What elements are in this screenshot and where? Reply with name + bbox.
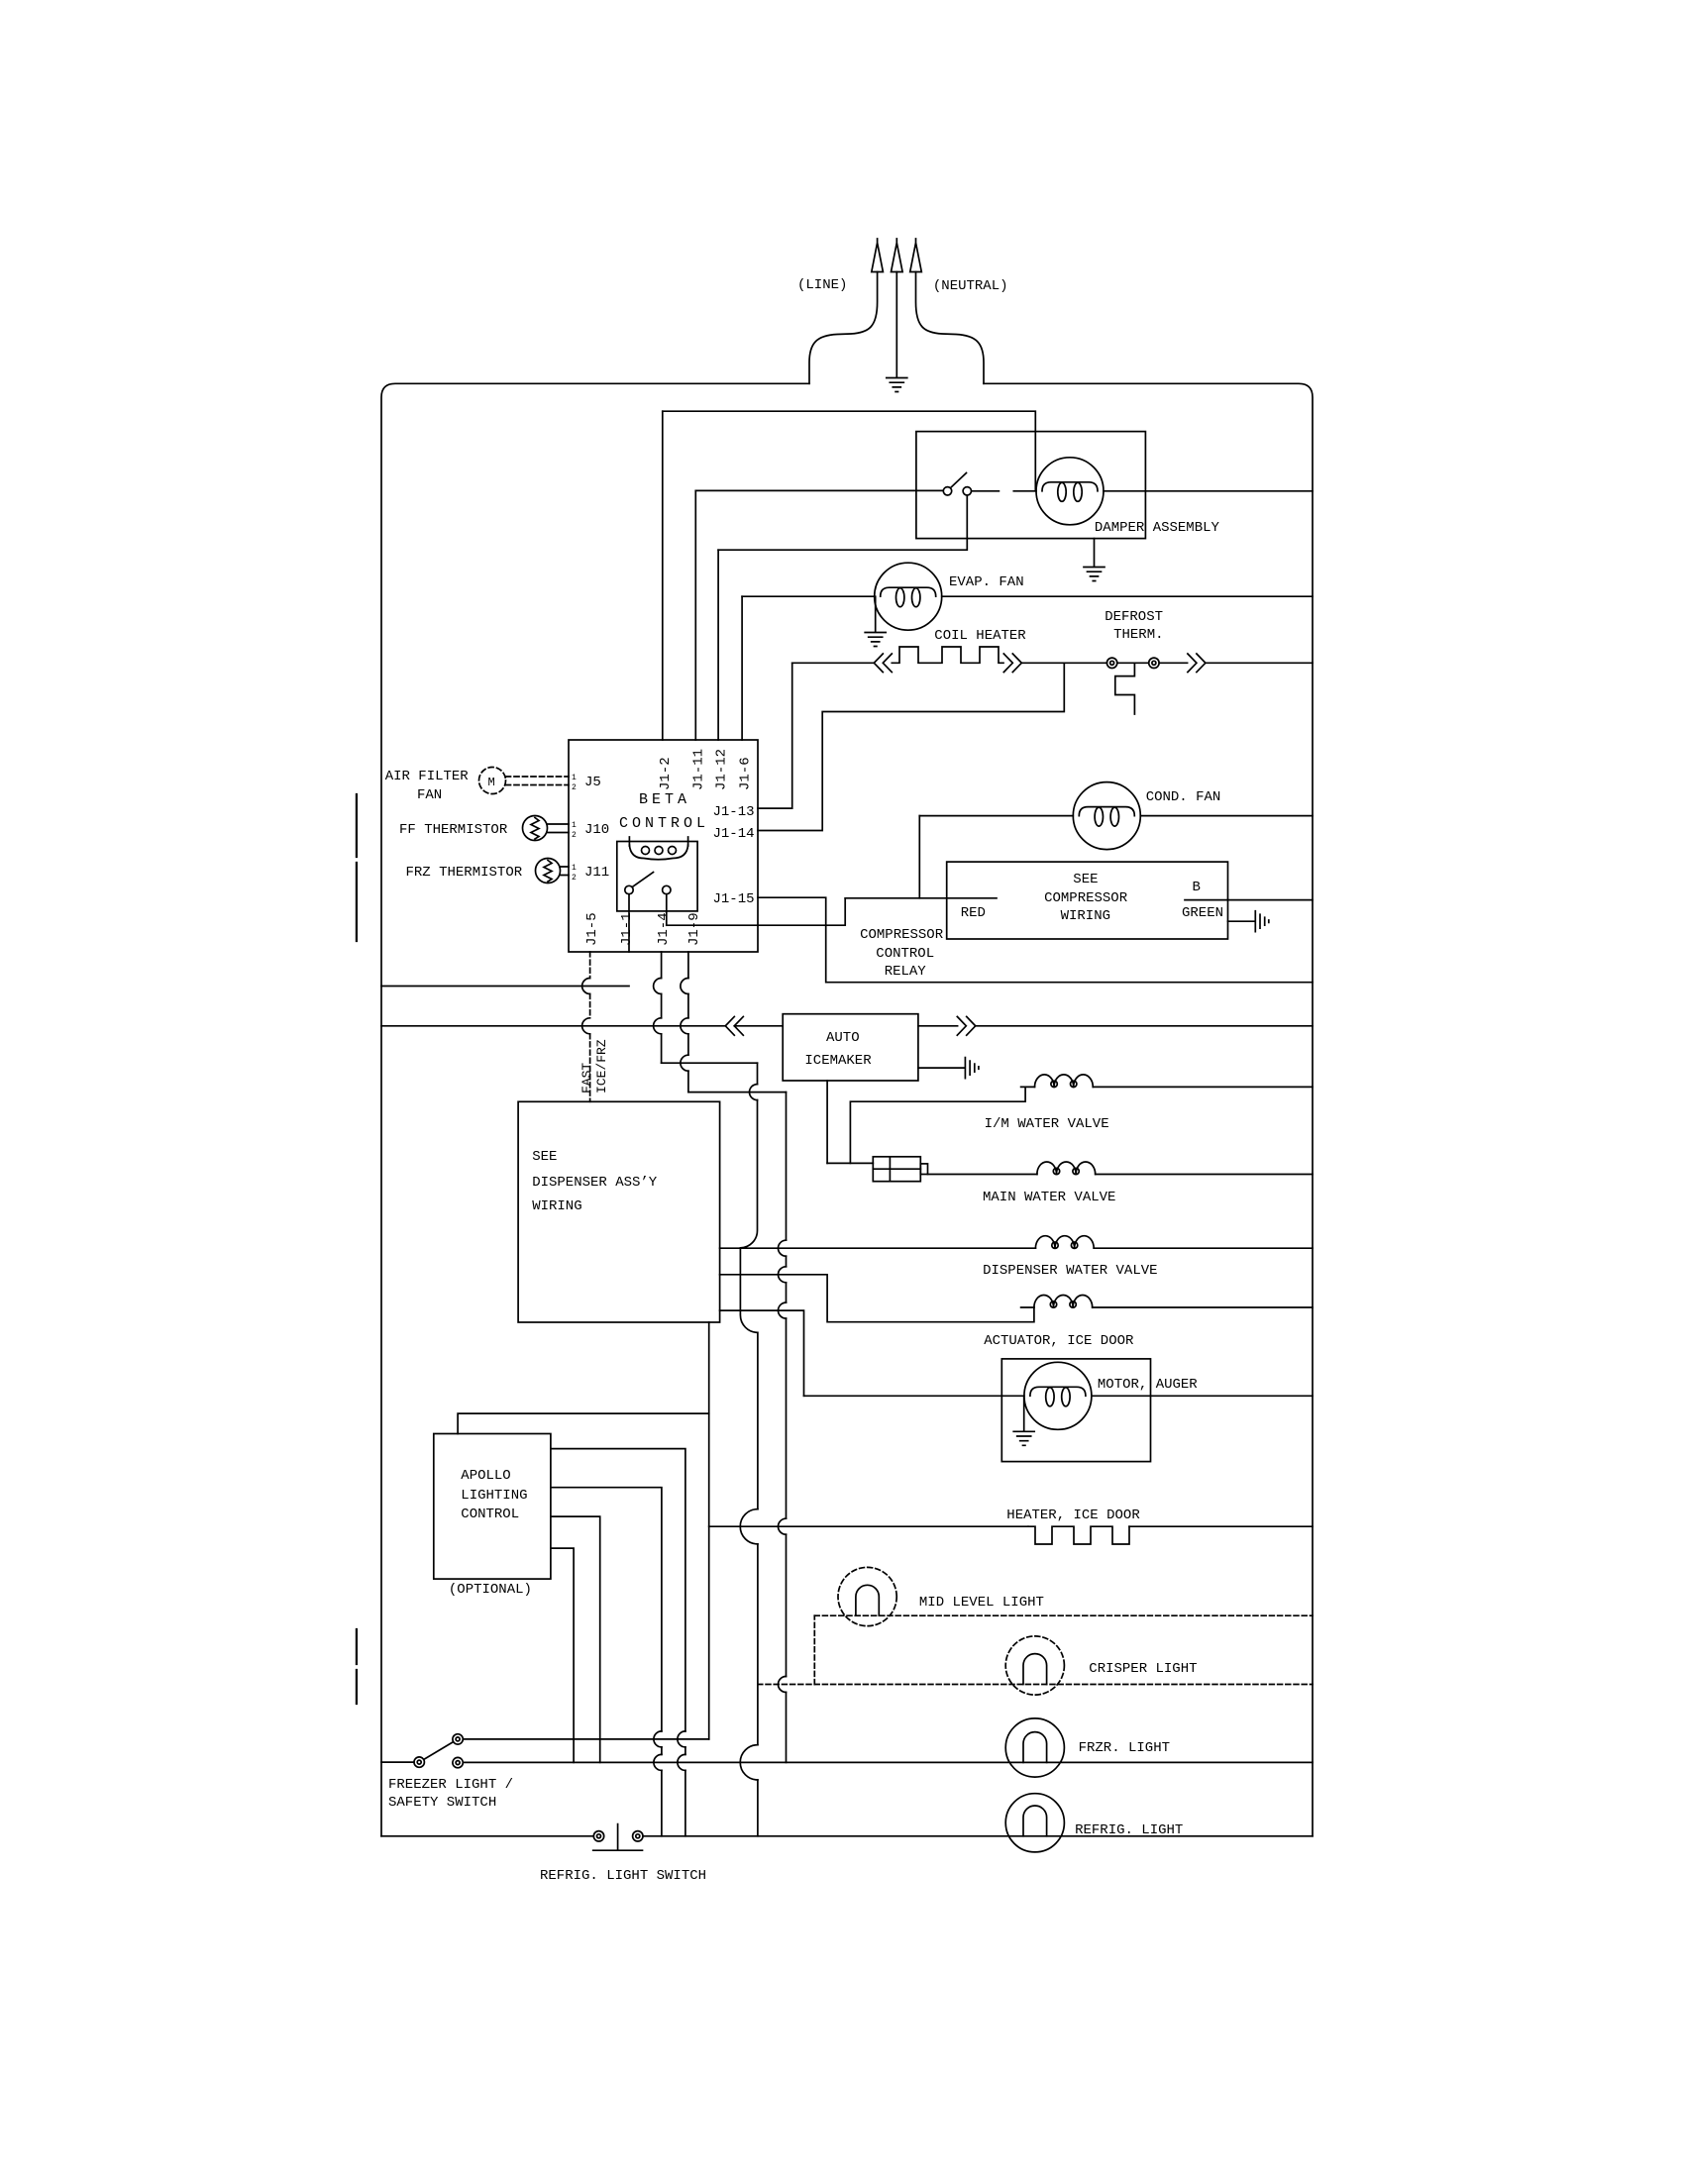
- svg-text:MAIN WATER VALVE: MAIN WATER VALVE: [983, 1190, 1115, 1205]
- wire J1-1 line to left border: [381, 986, 629, 988]
- svg-text:1: 1: [572, 774, 577, 782]
- border top edge with rounded corners: [381, 383, 1313, 1836]
- air filter fan leads dashed: [506, 777, 570, 785]
- fold mark upper: [356, 794, 358, 941]
- svg-text:DISPENSER ASS’Y: DISPENSER ASS’Y: [532, 1175, 658, 1191]
- wire IM valve line: [1021, 1086, 1313, 1088]
- hop apollo pin1 over freezer top line: [678, 1731, 685, 1747]
- svg-text:2: 2: [572, 831, 577, 840]
- wire mid level dashed line: [814, 1614, 1313, 1616]
- FF thermistor element: [531, 818, 539, 840]
- svg-text:J11: J11: [584, 865, 609, 881]
- icemaker connector tab: [920, 1164, 927, 1175]
- svg-text:COMPRESSOR: COMPRESSOR: [860, 927, 944, 943]
- wire J1-6 riser: [741, 596, 743, 740]
- svg-text:ACTUATOR, ICE DOOR: ACTUATOR, ICE DOOR: [984, 1333, 1134, 1349]
- hop J1-9 feeder over dispenser valve line: [779, 1240, 787, 1256]
- hop J1-4 over J1-1 line: [654, 979, 662, 994]
- wire apollo top link: [458, 1413, 709, 1433]
- svg-text:J1-11: J1-11: [691, 749, 707, 790]
- hop J1-9 feeder over actuator link: [779, 1267, 787, 1283]
- switch contact left: [943, 487, 951, 495]
- damper motor: [1036, 458, 1104, 525]
- svg-text:SEE: SEE: [1073, 872, 1098, 887]
- svg-text:SEE: SEE: [532, 1149, 557, 1165]
- wire damper bus left: [695, 489, 942, 491]
- wire main valve line: [928, 1174, 1314, 1176]
- wire icemaker drop: [826, 1081, 828, 1163]
- svg-text:REFRIG. LIGHT: REFRIG. LIGHT: [1075, 1822, 1183, 1838]
- wire evap fan ground drop: [875, 596, 877, 631]
- svg-text:GREEN: GREEN: [1182, 905, 1223, 921]
- svg-text:COND. FAN: COND. FAN: [1146, 789, 1221, 805]
- wire J1-12 riser: [717, 550, 719, 740]
- wire actuator line: [1021, 1306, 1313, 1308]
- svg-text:M: M: [488, 776, 495, 789]
- plug prong NEUTRAL: [910, 239, 922, 272]
- icemaker connector body: [873, 1157, 920, 1182]
- svg-text:REFRIG. LIGHT SWITCH: REFRIG. LIGHT SWITCH: [540, 1868, 706, 1884]
- connector chevrons right of therm: [1188, 654, 1206, 673]
- wire icemaker bus to box: [734, 1025, 783, 1027]
- wire auto icemaker bus left: [381, 1025, 725, 1027]
- crisper light bulb: [1005, 1636, 1064, 1695]
- freezer switch contact top: [453, 1734, 463, 1744]
- chassis ground icemaker: [965, 1058, 979, 1079]
- crisper light filament: [1023, 1654, 1047, 1685]
- svg-text:(NEUTRAL): (NEUTRAL): [933, 278, 1008, 294]
- wire heater bus: [1021, 662, 1313, 664]
- svg-text:BETA: BETA: [639, 791, 690, 808]
- hop apollo pin1 over frzr light line: [678, 1754, 685, 1770]
- svg-text:RED: RED: [961, 905, 986, 921]
- svg-text:FRZR. LIGHT: FRZR. LIGHT: [1079, 1740, 1170, 1756]
- svg-text:2: 2: [572, 783, 577, 792]
- big hop J1-4 feeder over frzr light line: [740, 1745, 758, 1780]
- refrig switch contact left: [593, 1831, 603, 1841]
- wire border bottom to switch: [381, 1835, 593, 1837]
- ground symbol below plug: [887, 378, 907, 392]
- svg-text:WIRING: WIRING: [532, 1198, 581, 1214]
- svg-text:HEATER, ICE DOOR: HEATER, ICE DOOR: [1006, 1508, 1140, 1523]
- actuator coil: [1034, 1296, 1093, 1308]
- wire apollo pin1: [551, 1449, 685, 1836]
- relay blade: [632, 873, 653, 887]
- svg-text:J1-15: J1-15: [713, 891, 755, 907]
- svg-text:J10: J10: [584, 822, 609, 838]
- wire heater ice door line: [709, 1525, 1313, 1527]
- wire evap fan bus: [742, 595, 1313, 597]
- svg-text:J1-14: J1-14: [713, 826, 755, 842]
- wire relay right contact drop: [666, 894, 668, 926]
- svg-text:CRISPER LIGHT: CRISPER LIGHT: [1089, 1661, 1197, 1677]
- wire ground pin drop: [895, 272, 897, 377]
- FRZ thermistor leads: [560, 867, 569, 876]
- hop J1-9 over J1-1 line: [681, 979, 688, 994]
- hop J1-4 over icemaker bus: [654, 1018, 662, 1034]
- auto icemaker box: [783, 1014, 918, 1081]
- svg-text:J1-2: J1-2: [658, 757, 674, 790]
- hop apollo pin2 over freezer top line: [654, 1731, 662, 1747]
- svg-text:COMPRESSOR: COMPRESSOR: [1044, 890, 1128, 906]
- svg-text:DISPENSER WATER VALVE: DISPENSER WATER VALVE: [983, 1263, 1157, 1279]
- refrig light filament: [1023, 1806, 1047, 1836]
- svg-text:1: 1: [572, 821, 577, 830]
- evap fan motor: [875, 563, 942, 630]
- svg-text:THERM.: THERM.: [1113, 627, 1163, 643]
- svg-text:MID LEVEL LIGHT: MID LEVEL LIGHT: [919, 1595, 1044, 1611]
- wire dispenser box drop to freezer switch line: [708, 1322, 710, 1739]
- wire auger bus: [804, 1395, 1314, 1397]
- plug prong LINE: [872, 239, 884, 272]
- wire J1-11 riser: [694, 490, 696, 740]
- svg-text:CONTROL: CONTROL: [876, 946, 934, 962]
- wire J1-4 feeder vertical: [740, 1063, 758, 1836]
- hop J1-9 feeder over auger link: [779, 1302, 787, 1318]
- svg-text:FAN: FAN: [417, 787, 442, 803]
- wire connector feed: [827, 1162, 873, 1164]
- svg-text:CONTROL: CONTROL: [619, 815, 709, 832]
- wire J1-9 horizontal jog: [688, 1092, 787, 1093]
- FRZ thermistor: [536, 859, 561, 884]
- hop J1-5 over J1-1 line: [582, 979, 590, 994]
- wire J1-4 horizontal jog: [662, 1062, 758, 1064]
- connector chevrons icemaker left: [725, 1016, 743, 1035]
- compressor wiring box: [947, 862, 1228, 939]
- wire damper bus right to border: [1104, 490, 1313, 492]
- heater ice door element: [1028, 1526, 1129, 1544]
- svg-text:ICEMAKER: ICEMAKER: [804, 1053, 872, 1069]
- FF thermistor: [523, 816, 548, 841]
- svg-text:AUTO: AUTO: [826, 1030, 860, 1046]
- svg-text:J5: J5: [584, 775, 601, 790]
- svg-text:1: 1: [572, 864, 577, 873]
- FF thermistor leads: [547, 824, 569, 833]
- beta control box: [569, 740, 758, 952]
- wire cond fan drop to red line: [918, 816, 920, 898]
- dispenser water valve coil: [1035, 1236, 1094, 1249]
- wire border to freezer switch: [381, 1761, 414, 1763]
- wire J1-9 drop: [687, 952, 689, 1092]
- heater element coil heater: [792, 647, 1003, 663]
- wire damper ground drop: [1094, 539, 1096, 567]
- ground symbol damper: [1084, 568, 1105, 581]
- connector chevrons icemaker right: [957, 1016, 975, 1035]
- wire J1-9 feeder vertical: [786, 1092, 788, 1763]
- freezer switch contact bottom: [453, 1757, 463, 1767]
- wire apollo pin3: [551, 1516, 600, 1762]
- big hop J1-4 feeder over heater ice door line: [740, 1509, 758, 1544]
- plug prong ground pin: [892, 239, 903, 272]
- svg-text:FRZ THERMISTOR: FRZ THERMISTOR: [406, 865, 523, 881]
- defrost therm terminal right: [1149, 658, 1159, 668]
- wire icemaker bus right: [918, 1025, 1313, 1027]
- svg-text:B: B: [1193, 880, 1201, 895]
- wire top link: [663, 411, 1036, 491]
- svg-text:(OPTIONAL): (OPTIONAL): [449, 1582, 532, 1598]
- refrig switch plunger: [593, 1824, 643, 1851]
- svg-text:DEFROST: DEFROST: [1105, 609, 1163, 625]
- wire relay left contact to J1-1: [628, 894, 630, 952]
- svg-text:J1-1: J1-1: [619, 912, 635, 946]
- ground symbol auger: [1013, 1431, 1034, 1445]
- wire neutral-prong S-curve to border: [916, 272, 985, 384]
- main water valve coil: [1037, 1162, 1096, 1175]
- relay coil: [629, 845, 687, 860]
- svg-text:J1-5: J1-5: [584, 912, 600, 946]
- hop J1-9 feeder over crisper dashed line: [779, 1677, 787, 1693]
- wire frzr light line: [464, 1761, 1314, 1763]
- wire auger link: [720, 1310, 804, 1396]
- ground symbol evap fan: [865, 633, 886, 647]
- svg-text:J1-12: J1-12: [714, 749, 730, 790]
- svg-text:FF THERMISTOR: FF THERMISTOR: [399, 822, 508, 838]
- wire dispenser valve line: [720, 1247, 1313, 1249]
- dispenser assy box: [518, 1101, 720, 1322]
- svg-text:J1-9: J1-9: [686, 912, 702, 946]
- wire link to IM valve: [850, 1087, 1025, 1163]
- wire auger ground drop: [1023, 1396, 1025, 1430]
- wire J1-2 riser: [662, 411, 664, 740]
- svg-text:APOLLO: APOLLO: [461, 1468, 510, 1484]
- svg-text:WIRING: WIRING: [1061, 908, 1110, 924]
- wire J1-4 drop: [661, 952, 663, 1063]
- defrost therm sensing element: [1115, 663, 1135, 714]
- svg-text:2: 2: [572, 874, 577, 883]
- wire B to right border: [1228, 899, 1314, 901]
- wire apollo pin2: [551, 1488, 662, 1836]
- wire icemaker ground lead: [918, 1067, 965, 1069]
- refrig switch contact right: [633, 1831, 643, 1841]
- svg-text:FAST: FAST: [579, 1063, 594, 1093]
- refrig light bulb: [1005, 1794, 1064, 1852]
- svg-text:J1-4: J1-4: [656, 912, 672, 946]
- relay box inside beta control: [617, 842, 697, 911]
- air filter fan motor dashed: [479, 768, 506, 794]
- svg-text:(LINE): (LINE): [797, 277, 847, 293]
- svg-text:DAMPER ASSEMBLY: DAMPER ASSEMBLY: [1095, 520, 1220, 536]
- wire actuator link: [720, 1275, 1034, 1322]
- hop J1-9 feeder over heater ice door line: [779, 1518, 787, 1534]
- mid level light bulb: [838, 1567, 896, 1625]
- frzr light filament: [1023, 1732, 1047, 1763]
- motor auger box: [1001, 1359, 1150, 1462]
- wire RED terminal line: [845, 897, 997, 899]
- wire line-prong S-curve to border: [809, 272, 878, 384]
- wire mid level dashed riser: [813, 1615, 815, 1684]
- svg-text:CONTROL: CONTROL: [461, 1507, 519, 1522]
- wire J1-15 to lower bus: [758, 897, 1313, 983]
- svg-text:SAFETY SWITCH: SAFETY SWITCH: [388, 1795, 496, 1811]
- wire J1-13 lead: [758, 663, 792, 808]
- svg-text:MOTOR, AUGER: MOTOR, AUGER: [1098, 1377, 1198, 1393]
- connector chevrons left of heater: [874, 654, 892, 673]
- fold mark lower: [356, 1629, 358, 1704]
- wire crisper dashed feed: [758, 1684, 1313, 1686]
- freezer switch contact left: [414, 1757, 424, 1767]
- hop apollo pin2 over frzr light line: [654, 1754, 662, 1770]
- svg-text:FREEZER LIGHT /: FREEZER LIGHT /: [388, 1777, 513, 1793]
- wire GREEN to chassis ground: [1228, 920, 1255, 922]
- switch blade: [951, 473, 967, 488]
- svg-text:J1-6: J1-6: [738, 757, 754, 790]
- hop J1-5 over icemaker bus: [582, 1018, 590, 1034]
- wire B terminal line: [1185, 899, 1228, 901]
- wire J1-12 link under damper box: [718, 495, 967, 550]
- switch contact right: [963, 487, 971, 495]
- hop J1-4 feeder over J1-9 jog: [750, 1085, 758, 1100]
- freezer switch blade: [424, 1742, 453, 1759]
- mid level light filament: [856, 1585, 879, 1615]
- wire switch to motor with break: [972, 490, 1036, 492]
- IM water valve coil: [1035, 1075, 1094, 1088]
- hop J1-9 over icemaker bus: [681, 1018, 688, 1034]
- wire J1-14 link to heater line: [758, 663, 1064, 830]
- wire J1-5 dashed drop: [589, 952, 591, 1101]
- wire freezer top contact line: [464, 1738, 709, 1740]
- svg-text:I/M WATER VALVE: I/M WATER VALVE: [985, 1116, 1109, 1132]
- wire refrig light line: [643, 1835, 1313, 1837]
- svg-text:J1-13: J1-13: [713, 804, 755, 820]
- relay coil stubs: [629, 837, 687, 846]
- motor auger: [1024, 1362, 1092, 1429]
- relay contact left: [625, 885, 633, 893]
- svg-text:EVAP. FAN: EVAP. FAN: [949, 574, 1024, 590]
- svg-text:RELAY: RELAY: [885, 964, 927, 980]
- wire relay output to RED: [667, 898, 845, 925]
- svg-text:COIL HEATER: COIL HEATER: [934, 628, 1026, 644]
- icemaker connector dividers: [873, 1157, 920, 1182]
- defrost therm terminal left: [1106, 658, 1116, 668]
- damper assembly box: [916, 432, 1146, 539]
- svg-text:AIR FILTER: AIR FILTER: [385, 769, 470, 784]
- relay contact right: [663, 885, 671, 893]
- connector chevrons right of heater: [1003, 654, 1021, 673]
- wire apollo pin4: [551, 1548, 574, 1762]
- hop J1-9 over J1-4 jog: [681, 1055, 688, 1071]
- apollo lighting control box: [434, 1434, 551, 1580]
- cond fan motor: [1073, 782, 1140, 850]
- svg-text:LIGHTING: LIGHTING: [461, 1488, 527, 1504]
- chassis ground symbol right-facing: [1255, 911, 1269, 932]
- svg-text:ICE/FRZ: ICE/FRZ: [594, 1039, 609, 1093]
- frzr light bulb: [1005, 1718, 1064, 1777]
- wire cond fan bus: [919, 815, 1313, 817]
- FRZ thermistor element: [544, 861, 552, 883]
